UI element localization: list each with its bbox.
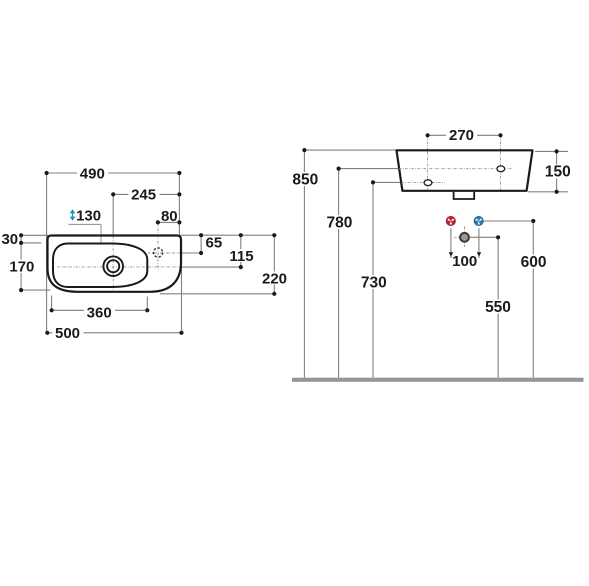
dot 490 left (45, 171, 49, 175)
waste vertical centerline (464, 227, 466, 248)
svg-text:550: 550 (485, 299, 511, 316)
right hole vertical centerline inside basin (500, 152, 502, 190)
500 right extension (181, 245, 183, 333)
svg-text:100: 100 (452, 253, 477, 270)
mounting hole left (ellipse) (424, 180, 432, 186)
dot 730 (371, 180, 375, 184)
dot 600 (531, 219, 535, 223)
dim 100 left line (450, 228, 452, 258)
dot 30 bottom (19, 241, 23, 245)
svg-text:130: 130 (76, 207, 101, 224)
svg-text:115: 115 (229, 248, 253, 265)
dot 850 (302, 148, 306, 152)
svg-text:170: 170 (9, 259, 34, 276)
right hole vertical centerline (500, 135, 502, 189)
730 top extension (373, 181, 402, 183)
svg-text:30: 30 (1, 231, 18, 248)
360 right extension (146, 297, 148, 311)
dot 170 bottom (19, 288, 23, 292)
left hole horizontal centerline inside basin (402, 182, 446, 184)
600 horizontal extension from cold tap (483, 220, 533, 222)
dot 220 top (272, 233, 276, 237)
hot water point (red) (446, 216, 455, 225)
dot 360 right (145, 308, 149, 312)
dot 150 bottom (555, 190, 559, 194)
svg-text:150: 150 (545, 164, 571, 181)
svg-text:600: 600 (521, 254, 547, 271)
130 leader vertical (100, 224, 102, 243)
waste horizontal centerline (454, 236, 490, 238)
130 leader underline (69, 223, 102, 225)
dot 245 left (111, 192, 115, 196)
faucet hole (dashed circle) (153, 248, 162, 257)
drain outer ring (103, 256, 123, 276)
130 up-down arrow icon (70, 209, 76, 221)
waste outlet tab under basin (454, 192, 475, 199)
dim 80 line (158, 221, 180, 223)
dim 30 vertical (20, 235, 22, 243)
dim 245 line (113, 193, 179, 195)
dimension end dots left view (19, 171, 276, 335)
dot 500 left (45, 331, 49, 335)
dim 550 vertical (497, 237, 499, 377)
30 bottom extension (21, 242, 41, 244)
left hole vertical centerline (427, 135, 429, 189)
svg-text:80: 80 (161, 208, 178, 225)
dot 115 top (239, 233, 243, 237)
150 bottom extension (528, 191, 568, 193)
svg-text:245: 245 (131, 187, 156, 204)
780 top extension (339, 168, 399, 170)
dim 100 right line (478, 228, 480, 258)
svg-text:780: 780 (326, 215, 352, 232)
dim 360 line (52, 309, 148, 311)
dot 150 top (555, 149, 559, 153)
dim 245 left extension (drain vertical) (112, 194, 114, 236)
svg-text:730: 730 (361, 274, 387, 291)
170 bottom extension (21, 289, 50, 291)
mounting hole right (ellipse) (497, 166, 505, 172)
dim 115 vertical (240, 235, 242, 267)
svg-text:220: 220 (262, 271, 287, 288)
150 top extension (535, 150, 568, 152)
dim 220 vertical (273, 235, 275, 294)
left hole vertical centerline inside basin (427, 152, 429, 190)
basin inner bowl (top view) (53, 244, 147, 288)
white masks under left view labels (8, 167, 290, 340)
550 horizontal extension from waste (470, 236, 498, 238)
dot 80 right (177, 220, 181, 224)
cold water point (blue) (474, 216, 483, 225)
basin body (side view trapezoid) (397, 150, 533, 191)
drain inner ring (107, 260, 119, 272)
dim 600 vertical (532, 221, 534, 378)
right hole horizontal centerline (399, 168, 512, 170)
dot 270 left (426, 133, 430, 137)
30 top extension (21, 234, 48, 236)
right hole horizontal centerline inside basin (399, 168, 512, 170)
dot 360 left (50, 308, 54, 312)
faucet vertical centerline (157, 222, 159, 271)
left hole horizontal centerline (402, 182, 446, 184)
dot 220 bottom (272, 292, 276, 296)
svg-text:65: 65 (206, 235, 223, 252)
dim 780 vertical (338, 169, 340, 378)
dim 100 left arrow (449, 252, 453, 256)
dim 500 line (47, 332, 181, 334)
dot 245 right (177, 192, 181, 196)
svg-text:270: 270 (449, 127, 474, 144)
svg-text:360: 360 (87, 305, 112, 322)
850 top extension (304, 149, 396, 151)
faucet horizontal centerline (148, 252, 182, 254)
drain horizontal extension to 115 (182, 266, 241, 268)
dim 100 right arrow (477, 252, 481, 256)
dot 550 (496, 235, 500, 239)
dot 30 top (19, 233, 23, 237)
dot 270 right (498, 133, 502, 137)
dot 780 (337, 167, 341, 171)
waste point (gray) (460, 233, 469, 242)
drain horizontal centerline (57, 266, 182, 268)
dot 80 left (156, 220, 160, 224)
dot 490 right (177, 171, 181, 175)
dim 730 vertical (372, 182, 374, 377)
svg-text:850: 850 (292, 172, 318, 189)
dim 270 line (428, 134, 501, 136)
top-right extension line (181, 234, 275, 236)
floor line (292, 378, 584, 382)
dot 65 bottom (199, 251, 203, 255)
360 left extension (51, 296, 53, 311)
dim 850 vertical (303, 150, 305, 378)
svg-text:490: 490 (80, 165, 105, 182)
dot 115 bottom (239, 265, 243, 269)
220 bottom extension (160, 293, 274, 295)
dot 500 right (179, 331, 183, 335)
svg-text:500: 500 (55, 325, 80, 342)
drain vertical centerline (112, 236, 114, 292)
dim 490 line (47, 172, 180, 174)
dim 170 vertical (20, 243, 22, 290)
dim 150 vertical (556, 151, 558, 191)
white masks under right view labels (291, 129, 574, 314)
dim 490 left extension (46, 173, 48, 333)
dot 65 top (199, 233, 203, 237)
dim 490 right extension (178, 173, 180, 235)
faucet horizontal extension to 65 (182, 252, 201, 254)
basin outer rim (top view) (48, 236, 182, 292)
dim 65 vertical (200, 235, 202, 253)
